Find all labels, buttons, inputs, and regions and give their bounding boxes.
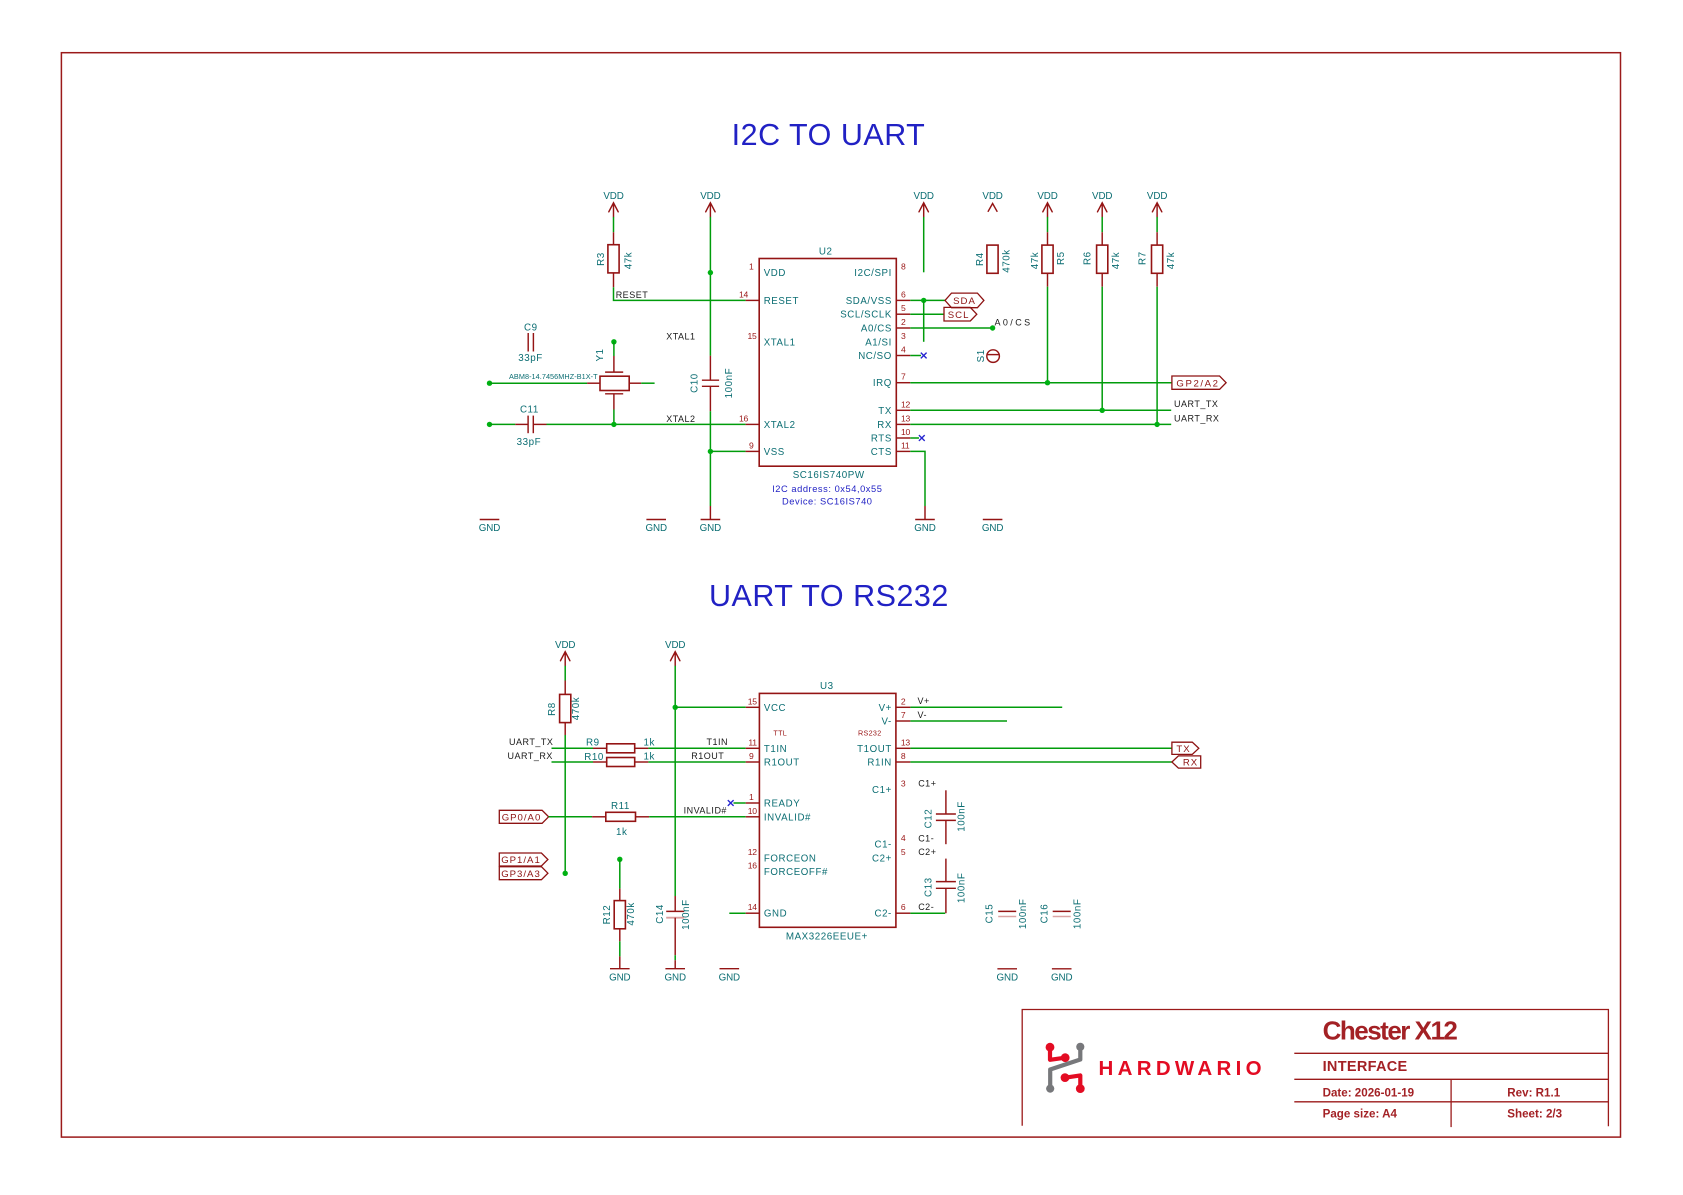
svg-text:READY: READY <box>764 799 800 810</box>
svg-text:UART TO RS232: UART TO RS232 <box>709 579 949 613</box>
svg-text:R3: R3 <box>596 252 607 266</box>
svg-text:7: 7 <box>901 372 906 382</box>
svg-text:A0/CS: A0/CS <box>861 324 892 335</box>
svg-text:RS232: RS232 <box>858 729 881 738</box>
ground GND (floating right) <box>982 520 1003 535</box>
svg-text:100nF: 100nF <box>724 368 735 399</box>
pin 4 NC/SO <box>896 355 910 357</box>
svg-text:5: 5 <box>901 847 906 857</box>
svg-text:C1-: C1- <box>918 833 934 843</box>
junction XTAL2 wire end <box>487 422 492 427</box>
power VDD (R8 rail) <box>555 640 575 666</box>
svg-text:R7: R7 <box>1138 251 1149 265</box>
svg-text:Device: SC16IS740: Device: SC16IS740 <box>782 496 872 506</box>
power VDD (U3 VCC rail) <box>665 640 685 666</box>
svg-text:8: 8 <box>901 751 906 761</box>
svg-text:4: 4 <box>901 833 906 843</box>
svg-text:Page size: A4: Page size: A4 <box>1323 1108 1398 1121</box>
svg-text:33pF: 33pF <box>517 437 542 448</box>
svg-text:VSS: VSS <box>764 447 785 458</box>
wire IRQ net <box>910 382 1172 384</box>
global label SCL <box>944 307 977 321</box>
svg-text:Date: 2026-01-19: Date: 2026-01-19 <box>1323 1086 1415 1099</box>
svg-text:GND: GND <box>764 909 787 920</box>
svg-text:U2: U2 <box>819 247 833 258</box>
junction crystal bottom <box>611 422 616 427</box>
svg-text:Rev: R1.1: Rev: R1.1 <box>1507 1086 1560 1099</box>
pin 7 IRQ <box>896 382 910 384</box>
svg-text:47k: 47k <box>1030 252 1041 269</box>
wire UART_RX net <box>910 423 1171 425</box>
svg-text:C1+: C1+ <box>872 785 892 796</box>
svg-text:C2-: C2- <box>918 902 934 912</box>
svg-text:T1IN: T1IN <box>707 737 729 747</box>
svg-text:11: 11 <box>748 737 757 747</box>
svg-text:A0/CS: A0/CS <box>995 318 1033 328</box>
svg-text:1k: 1k <box>644 738 655 749</box>
svg-text:GP2/A2: GP2/A2 <box>1176 378 1219 389</box>
svg-text:100nF: 100nF <box>1073 899 1084 930</box>
wire VCC to pin15 <box>675 706 746 708</box>
svg-text:15: 15 <box>748 696 757 706</box>
junction IRQ/R5 <box>1045 380 1050 385</box>
junction SDA <box>921 298 926 303</box>
capacitor C11 33pF <box>515 405 546 449</box>
pin 7 V- <box>896 720 911 722</box>
wire C14 to GND <box>674 955 676 960</box>
resistor R10 1k <box>584 751 655 766</box>
svg-text:A1/SI: A1/SI <box>865 337 892 348</box>
svg-text:SCL: SCL <box>948 310 970 321</box>
svg-text:15: 15 <box>748 331 757 341</box>
wire R1IN to RX <box>910 761 1172 763</box>
svg-text:RESET: RESET <box>616 290 649 300</box>
pin 9 VSS <box>746 450 760 452</box>
svg-text:INTERFACE: INTERFACE <box>1323 1059 1408 1075</box>
svg-text:16: 16 <box>739 413 748 423</box>
wire READY stub <box>734 802 746 804</box>
IC U3 MAX3226 <box>746 681 911 943</box>
svg-text:C9: C9 <box>524 322 538 333</box>
wire VDD rail down to C10 <box>709 217 711 356</box>
pin 16 XTAL2 <box>746 423 760 425</box>
resistor R11 1k <box>592 801 649 838</box>
wire VDD to pin8 row <box>923 217 925 272</box>
svg-text:UART_RX: UART_RX <box>1174 413 1219 423</box>
ground GND (R12) <box>619 956 621 968</box>
wire UART_TX net <box>910 409 1171 411</box>
svg-text:RESET: RESET <box>764 296 799 307</box>
wire R7 to RX <box>1156 287 1158 425</box>
wire C2- to C13 <box>910 912 945 914</box>
resistor R9 1k <box>586 738 655 753</box>
power VDD (R3 rail) <box>603 191 623 217</box>
svg-text:C14: C14 <box>655 904 666 924</box>
svg-text:V+: V+ <box>879 703 892 714</box>
svg-text:I2C/SPI: I2C/SPI <box>854 268 892 279</box>
HARDWARIO logo <box>1046 1043 1266 1093</box>
svg-text:33pF: 33pF <box>518 353 543 364</box>
wire XTAL2 net <box>547 423 746 425</box>
svg-text:R12: R12 <box>602 905 613 925</box>
wire GP0/A0 to R11 <box>549 816 593 818</box>
svg-text:4: 4 <box>901 345 906 355</box>
wire R9 to pin11 <box>648 747 745 749</box>
pin 14 GND <box>746 912 760 914</box>
svg-text:I2C address: 0x54,0x55: I2C address: 0x54,0x55 <box>772 484 882 494</box>
global label SDA <box>945 293 984 308</box>
wire VSS to pin9 <box>710 450 745 452</box>
pin 14 RESET <box>746 299 760 301</box>
svg-text:HARDWARIO: HARDWARIO <box>1099 1057 1266 1080</box>
svg-text:11: 11 <box>901 440 910 450</box>
svg-text:R9: R9 <box>586 738 600 749</box>
svg-text:R10: R10 <box>584 752 604 763</box>
ground GND (U2 rail) <box>709 506 711 520</box>
wire GND pin14 <box>729 912 745 914</box>
capacitor C13 100nF <box>924 859 968 914</box>
svg-text:1k: 1k <box>644 751 655 762</box>
ground GND (under crystal, floating) <box>645 520 666 535</box>
wire crystal bottom stub <box>613 410 615 425</box>
global label GP3/A3 <box>499 867 548 880</box>
svg-text:C15: C15 <box>985 904 996 924</box>
svg-text:UART_TX: UART_TX <box>509 737 553 747</box>
svg-text:RX: RX <box>1183 758 1198 769</box>
pin 10 RTS <box>896 437 910 439</box>
ground GND (under C16, floating) <box>1051 969 1072 984</box>
svg-text:R11: R11 <box>611 801 630 812</box>
svg-text:12: 12 <box>901 399 910 409</box>
svg-text:C2-: C2- <box>874 909 891 920</box>
svg-text:FORCEON: FORCEON <box>764 853 817 864</box>
no-connect pin4 <box>921 353 927 359</box>
global label TX <box>1172 742 1199 755</box>
svg-text:100nF: 100nF <box>957 801 968 832</box>
svg-text:47k: 47k <box>1111 252 1122 269</box>
svg-text:470k: 470k <box>571 697 582 720</box>
wire R8 down to GP nets <box>564 735 566 873</box>
wire crystal top stub <box>613 342 615 356</box>
svg-text:14: 14 <box>748 902 757 912</box>
svg-text:C1+: C1+ <box>918 778 936 788</box>
capacitor C15 100nF (floating) <box>985 899 1029 930</box>
resistor R6 47k <box>1083 217 1122 287</box>
wire A0/CS net pin2 <box>910 327 992 329</box>
svg-text:2: 2 <box>901 696 906 706</box>
svg-text:NC/SO: NC/SO <box>858 351 892 362</box>
ground GND (C14) <box>674 960 676 969</box>
svg-text:T1IN: T1IN <box>764 744 787 755</box>
svg-text:TX: TX <box>878 406 892 417</box>
svg-text:2: 2 <box>901 317 906 327</box>
svg-text:C10: C10 <box>689 373 700 393</box>
svg-text:47k: 47k <box>1166 252 1177 269</box>
svg-text:100nF: 100nF <box>681 899 692 930</box>
svg-text:INVALID#: INVALID# <box>764 812 811 823</box>
junction R8 bottom <box>563 871 568 876</box>
svg-text:R1OUT: R1OUT <box>691 751 724 761</box>
pin 13 T1OUT <box>896 747 911 749</box>
svg-text:RX: RX <box>877 420 892 431</box>
wire pin10 RTS stub <box>910 437 919 439</box>
svg-text:C16: C16 <box>1039 904 1050 924</box>
wire V- net <box>910 720 1007 722</box>
svg-text:C11: C11 <box>520 405 539 416</box>
wire R5 to IRQ <box>1047 287 1049 383</box>
resistor R3 47k <box>596 232 635 287</box>
svg-text:C2+: C2+ <box>872 853 892 864</box>
svg-text:XTAL1: XTAL1 <box>764 337 796 348</box>
wire R12 to GND <box>619 941 621 956</box>
svg-text:Sheet: 2/3: Sheet: 2/3 <box>1507 1108 1562 1121</box>
wire V+ net <box>910 706 1062 708</box>
svg-text:FORCEOFF#: FORCEOFF# <box>764 867 828 878</box>
resistor R4 470k (floating) <box>975 245 1012 273</box>
svg-text:470k: 470k <box>1001 249 1012 272</box>
pin 13 RX <box>896 423 910 425</box>
svg-text:5: 5 <box>901 303 906 313</box>
svg-text:100nF: 100nF <box>957 873 968 904</box>
wire XTAL2 to C11 <box>490 423 516 425</box>
svg-text:9: 9 <box>749 751 754 761</box>
wire SDA net pin6 <box>910 299 945 301</box>
svg-text:XTAL1: XTAL1 <box>666 331 695 341</box>
pin 10 INVALID# <box>746 816 760 818</box>
capacitor C10 100nF <box>689 356 735 412</box>
svg-text:8: 8 <box>901 262 906 272</box>
svg-text:3: 3 <box>901 778 906 788</box>
resistor R12 470k <box>602 859 637 941</box>
wire CTS to GND <box>910 451 925 506</box>
svg-text:V+: V+ <box>918 696 930 706</box>
pin 8 R1IN <box>896 761 911 763</box>
resistor R7 47k <box>1138 217 1177 287</box>
pin 9 R1OUT <box>746 761 760 763</box>
svg-text:16: 16 <box>748 861 757 871</box>
svg-text:SCL/SCLK: SCL/SCLK <box>840 310 892 321</box>
svg-text:C12: C12 <box>924 809 935 829</box>
power VDD (R7 rail) <box>1147 191 1167 217</box>
crystal Y1 ABM8 <box>509 348 641 409</box>
pin 12 TX <box>896 409 910 411</box>
wire pin4 NC stub <box>910 355 921 357</box>
wire VDD rail down to C14 <box>674 666 676 896</box>
junction VCC row <box>673 705 678 710</box>
power VDD (pin8 rail) <box>914 191 934 217</box>
global label GP1/A1 <box>499 853 548 866</box>
pin 11 CTS <box>896 450 910 452</box>
svg-text:GP0/A0: GP0/A0 <box>502 812 542 823</box>
svg-text:1: 1 <box>749 262 754 272</box>
title block frame <box>1022 1010 1608 1128</box>
wire SCL net pin5 <box>910 313 944 315</box>
junction RX/R7 <box>1154 422 1159 427</box>
svg-text:13: 13 <box>901 413 910 423</box>
svg-text:TTL: TTL <box>773 729 787 738</box>
pin 6 SDA/VSS <box>896 299 910 301</box>
pin 1 READY <box>746 802 760 804</box>
svg-text:470k: 470k <box>626 902 637 925</box>
no-connect READY <box>728 800 734 806</box>
svg-text:R8: R8 <box>547 702 558 716</box>
svg-text:9: 9 <box>749 440 754 450</box>
IC U2 SC16IS740PW <box>739 247 910 507</box>
junction at U2 pin1 row <box>708 270 713 275</box>
svg-text:IRQ: IRQ <box>873 378 892 389</box>
svg-text:100nF: 100nF <box>1018 899 1029 930</box>
svg-text:UART_TX: UART_TX <box>1174 399 1218 409</box>
svg-text:6: 6 <box>901 902 906 912</box>
svg-text:INVALID#: INVALID# <box>684 806 727 816</box>
svg-text:TX: TX <box>1176 744 1190 755</box>
wire R6 to TX <box>1101 287 1103 411</box>
svg-text:3: 3 <box>901 331 906 341</box>
svg-text:XTAL2: XTAL2 <box>666 414 695 424</box>
svg-text:MAX3226EEUE+: MAX3226EEUE+ <box>786 932 868 943</box>
svg-text:1: 1 <box>749 792 754 802</box>
ground GND (under C15, floating) <box>996 969 1017 984</box>
power VDD (U2 VDD rail) <box>700 191 720 217</box>
pin 5 SCL/SCLK <box>896 313 910 315</box>
svg-text:SDA: SDA <box>953 296 976 307</box>
no-connect pin10 <box>919 435 925 441</box>
svg-text:C2+: C2+ <box>918 847 936 857</box>
svg-text:R1OUT: R1OUT <box>764 758 800 769</box>
wire R11 to pin10 INVALID# <box>649 816 746 818</box>
jumper S1 <box>976 349 1000 362</box>
power VDD (R6 rail) <box>1092 191 1112 217</box>
svg-text:GP3/A3: GP3/A3 <box>501 869 541 880</box>
svg-text:10: 10 <box>901 427 910 437</box>
power VDD (R5 rail) <box>1037 191 1057 217</box>
svg-text:7: 7 <box>901 710 906 720</box>
svg-text:I2C TO UART: I2C TO UART <box>732 118 926 152</box>
svg-text:C13: C13 <box>924 877 935 897</box>
svg-text:SC16IS740PW: SC16IS740PW <box>793 470 865 481</box>
wire to crystal left <box>490 382 588 384</box>
global label GP0/A0 <box>499 810 548 823</box>
svg-text:T1OUT: T1OUT <box>857 744 892 755</box>
power VDD (floating caret) <box>982 191 1002 212</box>
svg-text:S1: S1 <box>976 349 987 362</box>
capacitor C12 100nF <box>924 790 968 844</box>
pin 2 V+ <box>896 706 911 708</box>
svg-text:CTS: CTS <box>871 447 892 458</box>
capacitor C14 100nF <box>655 896 692 955</box>
wire crystal right (dangling) <box>641 382 654 384</box>
svg-text:R6: R6 <box>1083 251 1094 265</box>
wire R10 to pin9 <box>648 761 745 763</box>
resistor R5 47k <box>1030 217 1067 287</box>
pin 11 T1IN <box>746 747 760 749</box>
wire C10 to VSS/GND <box>709 411 711 506</box>
ground GND (left, floating) <box>479 520 500 535</box>
svg-text:R1IN: R1IN <box>867 758 891 769</box>
junction at VSS row <box>708 449 713 454</box>
svg-text:V-: V- <box>882 717 892 728</box>
pin 2 A0/CS <box>896 327 910 329</box>
wire VDD to R3 <box>613 217 615 232</box>
svg-text:R4: R4 <box>975 252 986 266</box>
resistor R8 470k <box>547 666 582 735</box>
svg-text:R5: R5 <box>1056 251 1067 265</box>
svg-text:UART_RX: UART_RX <box>508 751 553 761</box>
svg-text:47k: 47k <box>624 252 635 269</box>
wire RESET net R3 to pin14 <box>614 287 746 300</box>
svg-text:12: 12 <box>748 847 757 857</box>
junction dot (crystal-left wire end) <box>487 381 492 386</box>
svg-text:Y1: Y1 <box>595 348 606 361</box>
pin 15 VCC <box>746 706 760 708</box>
svg-text:13: 13 <box>901 737 910 747</box>
svg-text:VCC: VCC <box>764 703 786 714</box>
svg-text:U3: U3 <box>820 681 834 692</box>
junction crystal top <box>611 339 616 344</box>
svg-text:GP1/A1: GP1/A1 <box>501 855 541 866</box>
capacitor C9 33pF (unconnected) <box>518 322 543 364</box>
svg-text:C1-: C1- <box>874 840 891 851</box>
svg-text:10: 10 <box>748 806 757 816</box>
wire T1OUT to TX <box>910 747 1172 749</box>
ground GND (CTS) <box>924 506 926 520</box>
junction TX/R6 <box>1100 408 1105 413</box>
svg-text:RTS: RTS <box>871 434 892 445</box>
global label RX <box>1172 756 1201 769</box>
capacitor C16 100nF (floating) <box>1039 899 1083 930</box>
junction R12 top (dangling) <box>617 857 622 862</box>
wire UART_RX to R10 <box>552 761 594 763</box>
svg-text:VDD: VDD <box>764 268 786 279</box>
svg-text:ABM8-14.7456MHZ-B1X-T: ABM8-14.7456MHZ-B1X-T <box>509 372 598 381</box>
svg-text:V-: V- <box>918 710 928 720</box>
svg-text:1k: 1k <box>616 827 627 838</box>
svg-text:VDD: VDD <box>982 191 1002 202</box>
global label GP2/A2 <box>1172 376 1226 389</box>
wire SDA vertical stub <box>923 300 925 341</box>
ground GND (floating mid) <box>719 969 740 984</box>
svg-text:XTAL2: XTAL2 <box>764 420 796 431</box>
svg-text:SDA/VSS: SDA/VSS <box>846 296 892 307</box>
svg-text:14: 14 <box>739 289 748 299</box>
pin 6 C2- <box>896 912 911 914</box>
junction A0/CS end <box>990 325 995 330</box>
svg-text:6: 6 <box>901 289 906 299</box>
wire UART_TX to R9 <box>552 747 594 749</box>
svg-text:Chester X12: Chester X12 <box>1323 1016 1458 1046</box>
